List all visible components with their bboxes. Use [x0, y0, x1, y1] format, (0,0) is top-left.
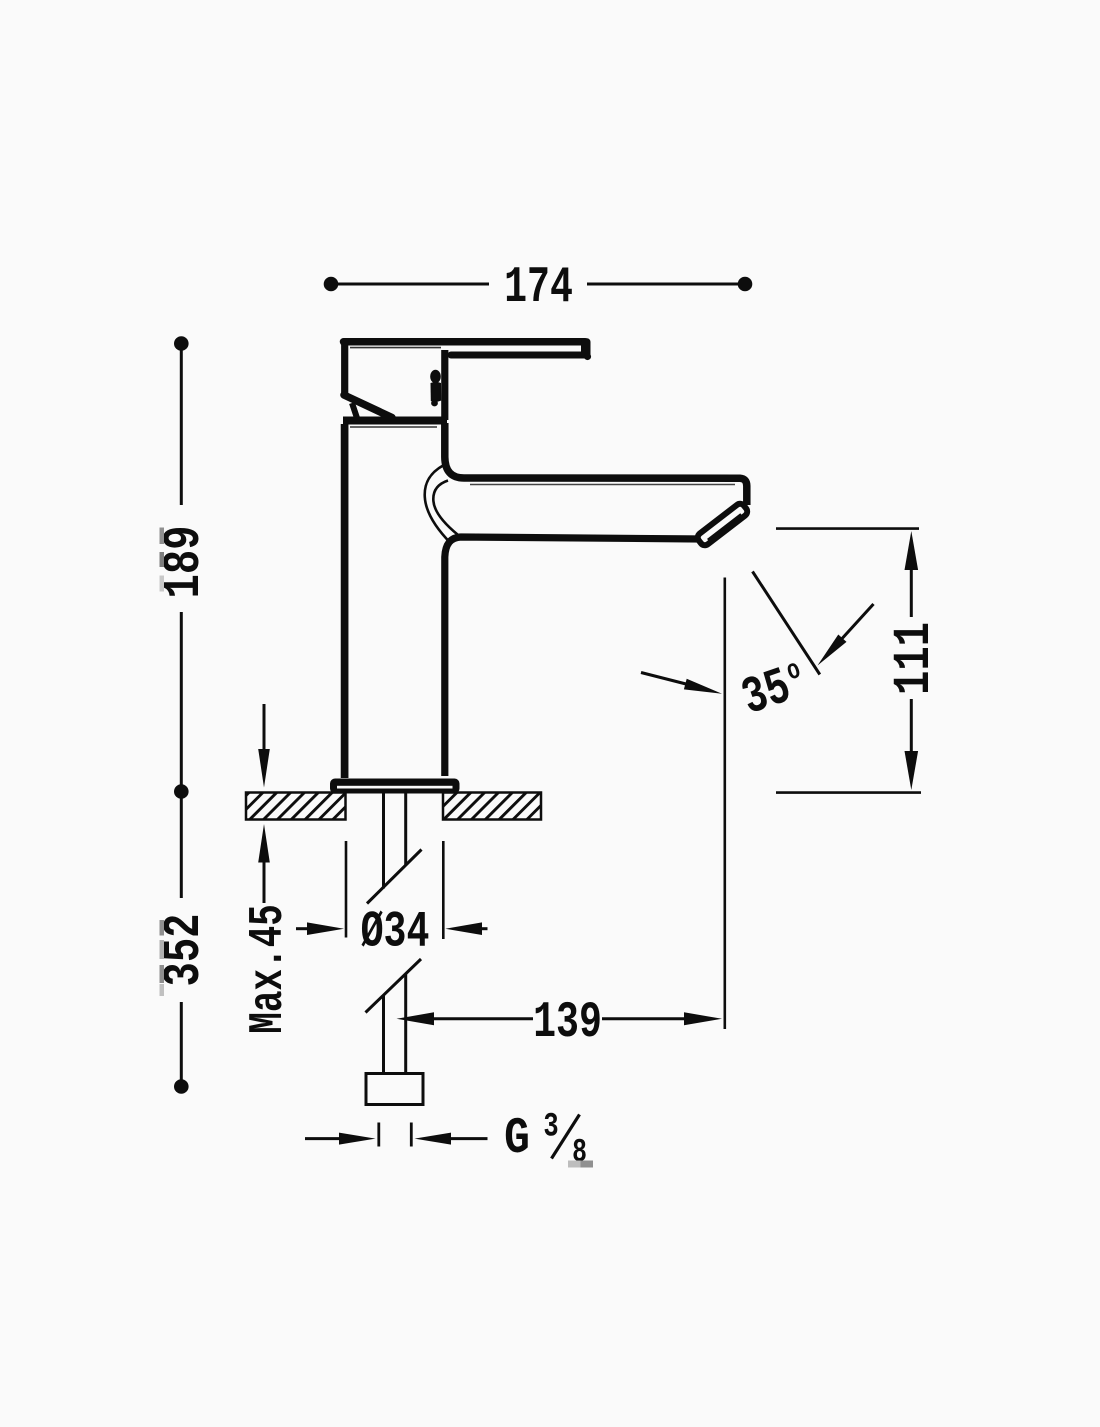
svg-text:Ø34: Ø34 — [361, 903, 430, 962]
svg-text:352: 352 — [156, 913, 215, 986]
svg-text:3: 3 — [543, 1108, 558, 1146]
svg-text:111: 111 — [886, 622, 945, 695]
svg-text:139: 139 — [533, 993, 602, 1052]
svg-text:174: 174 — [504, 258, 573, 317]
svg-text:Max.45: Max.45 — [241, 904, 295, 1034]
svg-text:G: G — [504, 1111, 530, 1168]
svg-text:189: 189 — [156, 525, 215, 598]
